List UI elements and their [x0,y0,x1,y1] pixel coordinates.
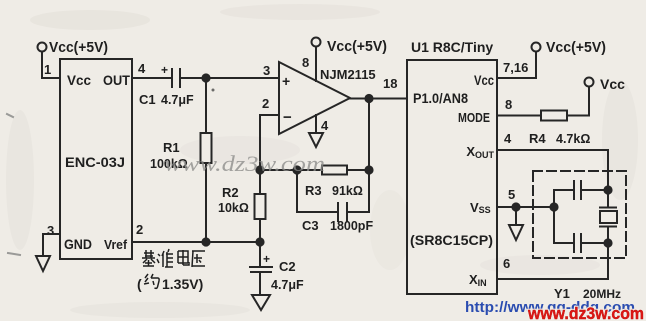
IC U1 R8C/Tiny box [407,60,497,294]
svg-text:4: 4 [504,131,512,146]
svg-text:C3: C3 [302,218,319,233]
wire R4 to Vcc terminal [567,87,589,116]
junction dot crystal bottom [604,239,611,246]
svg-text:C2: C2 [279,259,296,274]
svg-text:4: 4 [321,118,329,133]
svg-text:−: − [283,109,292,126]
wire U1 Vcc pin to terminal [497,52,536,78]
capacitor top of crystal [554,181,608,199]
junction dot Vref/R2 [256,238,263,245]
svg-text:OUT: OUT [103,72,130,88]
svg-text:Vcc(+5V): Vcc(+5V) [546,39,606,56]
svg-text:8: 8 [505,97,512,112]
wire XOUT to crystal top [497,150,608,190]
svg-text:MODE: MODE [458,110,490,125]
wire op-amp output to U1 [350,98,407,100]
svg-text:(: ( [137,276,142,292]
dashed box crystal network [533,171,626,258]
svg-text:91kΩ: 91kΩ [332,184,363,198]
svg-text:18: 18 [383,76,397,91]
scan artifact dot near node A [212,89,215,92]
scan artifact tick left [7,114,13,117]
resistor R4 [541,111,567,121]
svg-text:2: 2 [262,96,269,111]
ground symbol Vss [509,207,523,240]
op-amp U NJM2115 [279,62,350,134]
wire MODE to R4 [497,115,541,117]
svg-text:2: 2 [136,222,143,237]
svg-text:4: 4 [138,61,146,76]
svg-text:8: 8 [302,55,309,70]
svg-text:10kΩ: 10kΩ [218,201,249,215]
label reference voltage (Chinese) 基准电压 [142,249,205,267]
wire output node down to feedback [368,99,370,213]
svg-text:1: 1 [44,62,51,77]
wire XIN to crystal bottom [497,243,608,279]
wire GND pin to ground [43,234,60,256]
svg-text:R3: R3 [305,183,322,198]
svg-text:Vcc(+5V): Vcc(+5V) [49,39,108,56]
junction dot crystal top [604,186,611,193]
svg-text:GND: GND [64,236,92,252]
svg-text:4.7kΩ: 4.7kΩ [556,132,590,146]
svg-text:6: 6 [503,256,510,271]
wire inverting input [260,114,279,116]
capacitor bottom of crystal [554,234,608,252]
wire terminal to ENC Vcc pin [42,52,60,78]
svg-text:1.35V): 1.35V) [162,276,203,292]
IC ENC-03J box [60,59,132,259]
svg-text:1800pF: 1800pF [330,219,373,233]
terminal Vcc right [585,78,594,87]
svg-text:R4: R4 [529,131,546,146]
feedback wire horizontal [260,169,369,171]
terminal Vcc(+5V) op-amp pin 8 [312,38,321,82]
junction dot feedback left [256,166,263,173]
svg-text:5: 5 [508,187,515,202]
svg-text:Vcc(+5V): Vcc(+5V) [327,38,387,55]
wire Vss [497,206,554,208]
crystal Y1 [600,190,617,243]
capacitor C2 [250,242,272,295]
wire inverting input to feedback node [259,115,261,170]
svg-text:Vcc: Vcc [67,72,91,88]
junction dot feedback right [365,166,372,173]
svg-text:ENC-03J: ENC-03J [65,154,125,170]
resistor R3 [322,166,347,175]
output node dot [365,95,372,102]
svg-text:3: 3 [47,223,54,238]
svg-text:(SR8C15CP): (SR8C15CP) [410,233,493,248]
wire C1 to op-amp non-inverting input [180,77,279,79]
op-amp pin 4 ground [309,115,323,147]
svg-text:www.dz3w.com: www.dz3w.com [527,304,644,321]
ground symbol under C2 [252,295,270,310]
capacitor C1 [161,63,180,87]
resistor R2 [255,170,266,242]
svg-text:+: + [161,63,168,77]
svg-text:+: + [263,252,270,266]
ground symbol left [36,256,50,271]
wire OUT to C1 [132,77,171,79]
scan artifact tick left lower [8,253,20,255]
junction dot C3 branch [293,166,300,173]
svg-text:www.dz3w.com: www.dz3w.com [164,151,325,176]
svg-text:Vref: Vref [104,237,128,252]
label approx 1.35V (Chinese) [137,276,203,292]
Chinese char approx (yue) [144,274,159,288]
junction dot Vss ground [512,203,519,210]
svg-text:+: + [282,73,290,89]
svg-text:R2: R2 [222,185,239,200]
terminal Vcc(+5V) U1 [532,43,541,52]
svg-text:7,16: 7,16 [503,60,528,75]
terminal Vcc(+5V) left [38,43,47,52]
wire left side of crystal caps [553,190,555,243]
svg-text:4.7μF: 4.7μF [161,93,194,107]
svg-text:4.7μF: 4.7μF [271,278,304,292]
svg-text:3: 3 [263,63,270,78]
junction dot Vss caps [550,203,557,210]
wire Vref line [132,241,260,243]
svg-text:Vcc: Vcc [600,76,625,92]
svg-text:U1 R8C/Tiny: U1 R8C/Tiny [411,39,493,55]
node dot R1 to Vref line [202,238,209,245]
svg-text:P1.0/AN8: P1.0/AN8 [413,91,468,106]
svg-text:C1: C1 [139,92,156,107]
capacitor C3 branch [297,170,369,221]
svg-text:NJM2115: NJM2115 [320,67,376,82]
resistor R1 [201,78,212,242]
svg-text:Vcc: Vcc [474,73,494,88]
node A junction dot [202,74,209,81]
